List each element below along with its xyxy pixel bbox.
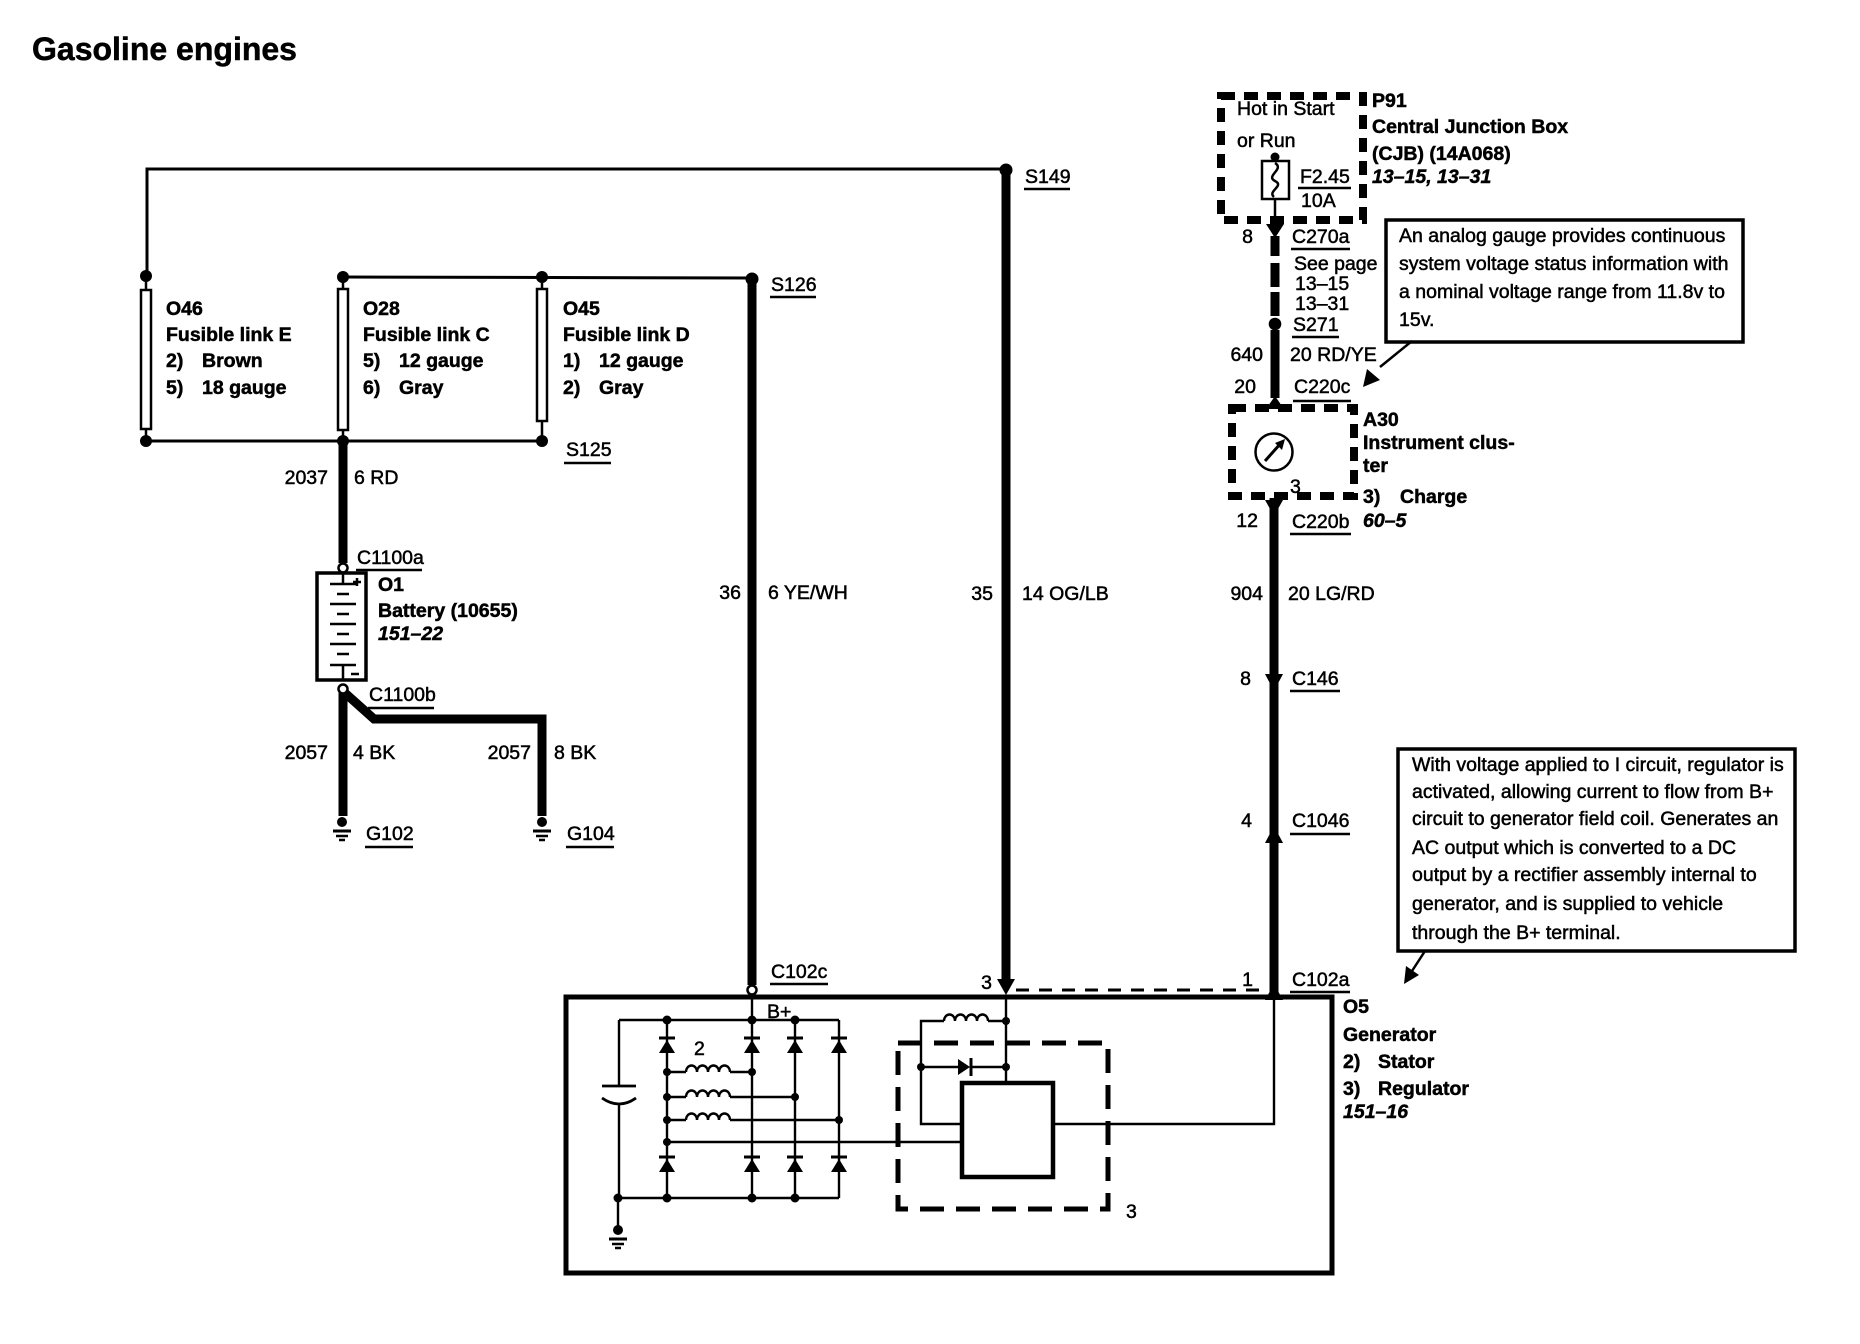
wire dashed connector line C102 [1016,989,1264,992]
svg-text:O28: O28 [363,298,400,320]
svg-text:151–16: 151–16 [1343,1101,1408,1123]
diode D8 bottom [831,1157,847,1172]
wire 4 BK battery to G102 [339,693,348,816]
diode D2 top [744,1038,760,1053]
svg-text:C220b: C220b [1292,511,1350,533]
svg-text:Hot in Start: Hot in Start [1237,98,1335,120]
svg-text:activated, allowing current to: activated, allowing current to flow from… [1412,781,1773,803]
svg-text:Instrument clus-: Instrument clus- [1363,432,1515,454]
svg-text:12 gauge: 12 gauge [599,350,684,372]
svg-text:13–15: 13–15 [1295,273,1349,295]
wire label 904 20 LG/RD [1230,583,1374,605]
svg-text:C1046: C1046 [1292,810,1349,832]
wire 6 YE/WH from S126 to C102c [748,281,757,985]
wire label 36 6 YE/WH [719,582,848,604]
svg-text:Gasoline engines: Gasoline engines [32,31,297,67]
svg-text:8: 8 [1240,668,1251,690]
svg-text:10A: 10A [1301,190,1336,212]
svg-text:3: 3 [1126,1201,1137,1223]
wire 8 BK battery to G104 [345,693,542,816]
diode D4 top [831,1038,847,1053]
svg-text:C270a: C270a [1292,226,1350,248]
svg-text:O1: O1 [378,574,404,596]
svg-text:G104: G104 [567,823,615,845]
svg-text:13–31: 13–31 [1295,293,1349,315]
ground internal generator [609,1198,627,1248]
svg-text:Central Junction Box: Central Junction Box [1372,116,1568,138]
wire P91 to C270a connector arrow [1266,224,1284,256]
svg-text:Regulator: Regulator [1378,1078,1469,1100]
ground G102 [333,817,414,847]
svg-text:AC output which is converted t: AC output which is converted to a DC [1412,837,1736,859]
svg-text:ter: ter [1363,455,1388,477]
svg-text:With voltage applied to I circ: With voltage applied to I circuit, regul… [1412,754,1784,776]
svg-text:3: 3 [981,972,992,994]
diode D6 bottom [744,1157,760,1172]
svg-text:Generator: Generator [1343,1024,1437,1046]
svg-text:(CJB) (14A068): (CJB) (14A068) [1372,143,1511,165]
svg-text:circuit to generator field coi: circuit to generator field coil. Generat… [1412,808,1778,830]
svg-text:F2.45: F2.45 [1300,166,1350,188]
wire rectifier leg 2 [751,1020,753,1198]
svg-text:6): 6) [363,377,380,399]
wire label 2057 4 BK [285,742,396,764]
note analog gauge [1363,220,1743,387]
node S125 [564,439,612,463]
svg-text:20 LG/RD: 20 LG/RD [1288,583,1375,605]
svg-text:6 RD: 6 RD [354,467,398,489]
svg-text:6 YE/WH: 6 YE/WH [768,582,848,604]
diode D9 field [917,1058,1006,1076]
wire top bus from fusible link E to S149 [147,169,1006,277]
svg-text:a nominal voltage range from 1: a nominal voltage range from 11.8v to [1399,281,1725,303]
svg-text:13–15, 13–31: 13–15, 13–31 [1372,166,1491,188]
pin 12 connector C220b [1236,500,1351,534]
svg-text:5): 5) [363,350,380,372]
field coil L4 [921,1015,1006,1064]
svg-text:12 gauge: 12 gauge [399,350,484,372]
battery O1 [317,573,518,680]
svg-text:S271: S271 [1293,314,1339,336]
svg-text:C1100b: C1100b [369,684,436,706]
svg-text:3): 3) [1343,1078,1360,1100]
svg-text:G102: G102 [366,823,414,845]
pin 1 connector C102a [1242,969,1350,1000]
central junction box P91 [1221,90,1568,220]
svg-text:3: 3 [1290,476,1301,498]
generator O5 box [566,996,1469,1273]
svg-text:8: 8 [1242,226,1253,248]
svg-text:output by a rectifier assembly: output by a rectifier assembly internal … [1412,864,1757,886]
connector C1100b [339,684,437,708]
svg-text:15v.: 15v. [1399,309,1434,331]
pin 3 of A30 [1290,476,1301,498]
svg-text:O5: O5 [1343,996,1369,1018]
wire rectifier leg 4 [838,1020,840,1198]
svg-text:An analog gauge provides conti: An analog gauge provides continuous [1399,225,1726,247]
svg-text:4: 4 [1241,810,1252,832]
svg-text:generator, and is supplied to: generator, and is supplied to vehicle [1412,893,1723,915]
wire regulator to C102a [1053,1000,1274,1124]
svg-text:2057: 2057 [285,742,328,764]
svg-text:2): 2) [1343,1051,1360,1073]
gauge charge indicator [1256,434,1293,471]
diode D7 bottom [787,1157,803,1172]
svg-text:8 BK: 8 BK [554,742,596,764]
svg-text:20: 20 [1234,376,1256,398]
wire rectifier bottom bus [614,1194,840,1203]
wire pin3 into regulator [1002,997,1010,1083]
svg-text:36: 36 [719,582,741,604]
regulator dashed box 3 [898,1043,1137,1223]
svg-text:1: 1 [1242,969,1253,991]
connector C102c [748,961,829,995]
wire 6 RD fuse C to battery [339,444,348,563]
stator coil L1 [663,1066,756,1077]
wire fuse bottom bus [146,440,542,443]
svg-text:151–22: 151–22 [378,623,443,645]
wire dashed C270a to S271 see page [1275,253,1378,316]
wire 14 OG/LB from S149 to generator pin 3 [1002,172,1011,980]
svg-text:3): 3) [1363,486,1380,508]
svg-text:S126: S126 [771,274,817,296]
node S149 [1000,164,1071,190]
svg-text:20 RD/YE: 20 RD/YE [1290,344,1377,366]
svg-text:C146: C146 [1292,668,1339,690]
wire stator to regulator [663,1138,962,1146]
wire 20 RD/YE S271 to C220c [1266,330,1284,409]
svg-text:Charge: Charge [1400,486,1467,508]
svg-text:C102a: C102a [1292,969,1350,991]
wire field coil to regulator left [921,1067,962,1124]
svg-text:P91: P91 [1372,90,1407,112]
svg-text:Brown: Brown [202,350,263,372]
svg-text:2037: 2037 [285,467,328,489]
svg-text:18 gauge: 18 gauge [202,377,287,399]
svg-text:640: 640 [1230,344,1263,366]
svg-text:4 BK: 4 BK [353,742,395,764]
stator coil L2 [663,1091,799,1101]
ground G104 [533,817,615,847]
svg-text:Stator: Stator [1378,1051,1435,1073]
wire label 2037 6 RD [285,467,399,489]
stator coil L3 [663,1114,843,1125]
svg-text:through the B+ terminal.: through the B+ terminal. [1412,922,1621,944]
wire label 35 14 OG/LB [971,583,1108,605]
pin 4 connector C1046 [1241,810,1350,843]
pin 3 of generator [981,972,1015,995]
svg-text:2: 2 [694,1038,705,1060]
svg-text:Gray: Gray [599,377,644,399]
svg-text:12: 12 [1236,510,1258,532]
wire fuse top bus C to D to S126 [343,277,752,278]
instrument cluster A30 [1232,408,1515,532]
svg-text:2): 2) [166,350,183,372]
note regulator operation [1398,749,1795,984]
svg-text:O46: O46 [166,298,203,320]
pin 20 connector C220c [1234,376,1351,401]
svg-text:or Run: or Run [1237,130,1296,152]
svg-text:O45: O45 [563,298,600,320]
svg-text:See page: See page [1294,253,1378,275]
fuse F2.45 10A [1262,153,1351,218]
svg-text:S149: S149 [1025,166,1071,188]
svg-text:2057: 2057 [488,742,531,764]
svg-text:Gray: Gray [399,377,444,399]
svg-text:2): 2) [563,377,580,399]
svg-text:C220c: C220c [1294,376,1351,398]
svg-text:system voltage status informat: system voltage status information with [1399,253,1728,275]
capacitor C [602,1020,636,1198]
wire label 2057 8 BK [488,742,597,764]
fusible link O46 E [140,270,292,447]
title [32,31,297,67]
fusible link O28 C [337,271,490,447]
wire rectifier top bus [619,1016,839,1025]
node S271 [1269,314,1339,337]
diode D3 top [787,1038,803,1053]
diode D1 top [659,1038,675,1053]
fusible link O45 D [536,271,690,447]
pin 8 connector C270a [1242,226,1350,249]
svg-text:Battery (10655): Battery (10655) [378,600,518,622]
wire rectifier leg 3 [794,1020,796,1198]
wire rectifier leg 1 [666,1020,668,1198]
diode D5 bottom [659,1157,675,1172]
node S126 [746,273,817,298]
svg-text:Fusible link D: Fusible link D [563,324,690,346]
svg-text:C1100a: C1100a [357,547,424,569]
svg-text:1): 1) [563,350,580,372]
svg-text:904: 904 [1230,583,1263,605]
svg-text:Fusible link C: Fusible link C [363,324,490,346]
label 2 stator pin [694,1038,705,1060]
svg-text:60–5: 60–5 [1363,510,1408,532]
connector C1100a [339,547,425,573]
svg-text:A30: A30 [1363,409,1399,431]
svg-text:S125: S125 [566,439,612,461]
node B+ [752,994,791,1023]
wire label 640 20 RD/YE [1230,344,1376,366]
svg-text:Fusible link E: Fusible link E [166,324,292,346]
regulator U1 box [962,1083,1053,1177]
svg-text:C102c: C102c [771,961,828,983]
svg-text:35: 35 [971,583,993,605]
pin 8 connector C146 [1240,668,1340,691]
wire 20 LG/RD C220b to C146 [1270,498,1279,1000]
svg-text:14 OG/LB: 14 OG/LB [1022,583,1109,605]
svg-text:5): 5) [166,377,183,399]
